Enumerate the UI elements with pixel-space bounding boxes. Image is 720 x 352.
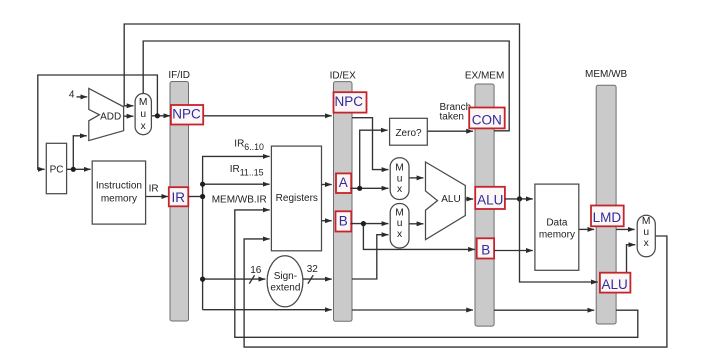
wire IR chain ID/EX to EX/MEM <box>352 309 473 311</box>
wire ALU output to EX/MEM ALU <box>465 198 473 200</box>
wire NPC to ALU mux 1 <box>352 118 388 170</box>
wire EX/MEM ALU to data memory address <box>505 198 533 200</box>
latch LMD in MEM/WB <box>591 206 624 227</box>
junction B <box>361 221 366 226</box>
latch ALU in MEM/WB <box>600 273 631 293</box>
svg-text:EX/MEM: EX/MEM <box>465 70 504 81</box>
junction IR11..15 <box>200 182 205 187</box>
svg-text:memory: memory <box>539 230 575 241</box>
junction sign-extend branch <box>200 277 205 282</box>
junction ALU result <box>517 196 522 201</box>
wire registers read 1 to ID/EX A <box>322 184 332 186</box>
wire constant 4 to ADD <box>77 96 88 98</box>
wire LMD to WB mux <box>616 228 635 230</box>
svg-text:x: x <box>141 121 147 132</box>
wire ALU result bypass to MEM/WB ALU <box>520 199 598 282</box>
wire IR chain EX/MEM to MEM/WB <box>494 309 594 311</box>
svg-text:memory: memory <box>101 193 137 204</box>
svg-text:x: x <box>397 184 403 195</box>
register PC <box>46 143 66 193</box>
svg-text:NPC: NPC <box>172 106 201 121</box>
svg-text:LMD: LMD <box>593 210 622 225</box>
junction IR input <box>200 194 205 199</box>
mux write back <box>637 215 655 257</box>
svg-text:u: u <box>397 173 403 184</box>
wire sign-extend to ID/EX <box>303 278 332 280</box>
svg-text:u: u <box>643 227 649 238</box>
svg-text:Registers: Registers <box>276 193 318 204</box>
wire IR field 11..15 to registers read port 2 <box>203 183 270 185</box>
mux ALU input 1 <box>390 158 409 200</box>
mux IF stage <box>135 94 151 135</box>
wire branch condition from EX/MEM CON to IF mux select <box>143 41 509 131</box>
svg-text:M: M <box>642 216 651 227</box>
latch ALU in EX/MEM <box>475 187 505 209</box>
wire registers read 2 to ID/EX B <box>322 220 332 222</box>
wire ALU mux 1 to ALU <box>409 177 423 179</box>
latch A in ID/EX <box>336 173 351 193</box>
wire immediate to ALU mux 2 <box>352 235 388 279</box>
latch NPC in IF/ID <box>171 105 203 125</box>
wire PC to instruction memory <box>67 168 91 170</box>
wire new PC feedback to PC <box>38 75 158 169</box>
latch NPC in ID/EX <box>334 92 367 112</box>
wire data memory to MEM/WB LMD <box>579 228 594 230</box>
svg-text:CON: CON <box>472 113 502 128</box>
data memory <box>535 184 579 270</box>
wire MEM/WB.IR feedback to registers write address <box>235 210 638 337</box>
wire IF mux to IF/ID NPC <box>151 115 170 117</box>
wire PC to ADD <box>73 136 87 170</box>
svg-text:IR6..10: IR6..10 <box>234 139 264 152</box>
pipeline register IF/ID <box>168 70 190 321</box>
bus width slash 16 <box>249 275 254 283</box>
svg-text:Data: Data <box>546 218 568 229</box>
latch B in EX/MEM <box>477 238 494 258</box>
wire IR immediate to sign-extend <box>203 278 266 280</box>
wire IR to ID/EX <box>203 309 332 311</box>
wire B to EX/MEM B <box>363 224 475 250</box>
latch B in ID/EX <box>336 211 352 231</box>
svg-text:M: M <box>395 163 404 174</box>
ALU <box>426 162 466 240</box>
junction PC output <box>71 167 76 172</box>
instruction memory <box>92 161 145 224</box>
wire ALU mux 2 to ALU <box>409 223 423 225</box>
svg-text:x: x <box>397 229 403 240</box>
svg-text:ALU: ALU <box>477 192 503 207</box>
wire MEM/WB ALU to WB mux <box>627 245 636 273</box>
svg-text:ALU: ALU <box>441 194 460 205</box>
svg-text:A: A <box>339 175 348 190</box>
svg-text:32: 32 <box>307 264 319 275</box>
wire A to zero tester <box>360 130 388 188</box>
wire WB mux result to registers write data <box>244 236 667 347</box>
svg-text:Sign-: Sign- <box>274 271 297 282</box>
wire instruction memory to IF/ID IR <box>146 196 169 198</box>
wire zero tester to EX/MEM condition <box>427 130 473 132</box>
bus width slash 32 <box>308 275 313 283</box>
svg-text:M: M <box>139 97 148 108</box>
svg-text:x: x <box>644 238 650 249</box>
wire ADD to IF mux <box>124 115 134 117</box>
svg-text:MEM/WB.IR: MEM/WB.IR <box>212 194 267 205</box>
svg-text:u: u <box>140 109 146 120</box>
svg-text:MEM/WB: MEM/WB <box>585 69 628 80</box>
wire EX/MEM B to data memory write data <box>494 250 533 252</box>
svg-text:M: M <box>395 207 404 218</box>
pipeline register MEM/WB <box>585 69 628 324</box>
svg-text:taken: taken <box>440 111 464 122</box>
svg-text:ALU: ALU <box>601 277 627 292</box>
latch CON in EX/MEM <box>469 108 505 129</box>
svg-text:B: B <box>481 243 490 258</box>
adder ADD <box>89 88 124 140</box>
svg-text:PC: PC <box>50 164 64 175</box>
junction A <box>357 186 362 191</box>
wire branch target from EX/MEM ALU to IF mux <box>124 24 519 199</box>
latch IR in IF/ID <box>169 187 189 206</box>
wire IF/ID NPC to ID/EX <box>203 115 332 117</box>
pipeline register ID/EX <box>330 70 356 321</box>
svg-text:B: B <box>339 214 348 229</box>
registers file <box>271 146 321 251</box>
svg-text:extend: extend <box>270 283 300 294</box>
svg-text:NPC: NPC <box>335 94 364 109</box>
wire A to ALU mux 1 <box>350 187 388 189</box>
svg-text:16: 16 <box>250 265 262 276</box>
wire IR to distribution node <box>188 196 202 198</box>
svg-text:u: u <box>397 218 403 229</box>
svg-text:ADD: ADD <box>100 111 121 122</box>
svg-text:4: 4 <box>69 90 75 101</box>
zero tester <box>390 118 428 145</box>
sign extend unit <box>267 256 303 307</box>
svg-text:IR: IR <box>149 184 159 195</box>
junction new PC <box>155 113 160 118</box>
svg-text:IF/ID: IF/ID <box>168 70 190 81</box>
wire IR field 6..10 to registers read port 1 <box>203 156 270 309</box>
pipeline register EX/MEM <box>465 70 504 326</box>
svg-text:ID/EX: ID/EX <box>330 70 356 81</box>
svg-text:IR: IR <box>171 190 185 205</box>
svg-text:Instruction: Instruction <box>96 181 142 192</box>
wire B to ALU mux 2 <box>350 223 388 225</box>
svg-text:Zero?: Zero? <box>395 128 422 139</box>
svg-text:IR11..15: IR11..15 <box>230 164 264 177</box>
mux ALU input 2 <box>390 204 409 249</box>
